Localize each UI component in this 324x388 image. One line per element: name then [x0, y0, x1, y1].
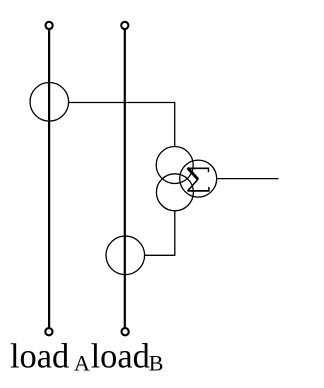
summer input circle bottom [156, 174, 193, 211]
summer sigma circle [180, 160, 217, 197]
current transformer CT2 on load B [106, 236, 145, 275]
svg-text:load: load [10, 337, 69, 375]
current transformer CT1 on load A [30, 83, 69, 122]
wire CT1 to summer [69, 103, 175, 147]
svg-text:load: load [91, 337, 150, 375]
wire CT2 to summer [145, 211, 175, 255]
terminal top A [46, 22, 53, 29]
terminal bottom B [122, 328, 129, 335]
terminal bottom A [45, 328, 52, 335]
terminal top B [121, 22, 128, 29]
sigma symbol [187, 168, 209, 192]
wire load A (left vertical) [48, 29, 50, 327]
output wire [217, 178, 279, 180]
svg-text:B: B [149, 351, 164, 376]
svg-text:A: A [74, 351, 90, 376]
summer input circle top [156, 147, 193, 184]
wire load B (right vertical) [124, 29, 126, 327]
